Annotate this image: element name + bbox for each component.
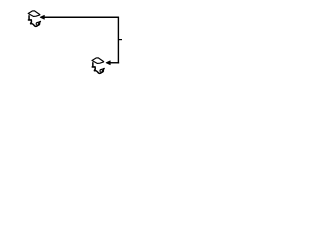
wire: vertical segment xyxy=(117,17,119,64)
wire: bottom horizontal segment xyxy=(110,62,120,64)
module icon B (bottom sink) xyxy=(92,58,104,74)
arrowhead into icon A xyxy=(40,15,44,19)
wire: top horizontal segment xyxy=(43,16,118,18)
module icon A (top-left source) xyxy=(28,11,40,27)
arrowhead into icon B xyxy=(106,61,110,65)
tick on vertical wire xyxy=(118,39,122,41)
